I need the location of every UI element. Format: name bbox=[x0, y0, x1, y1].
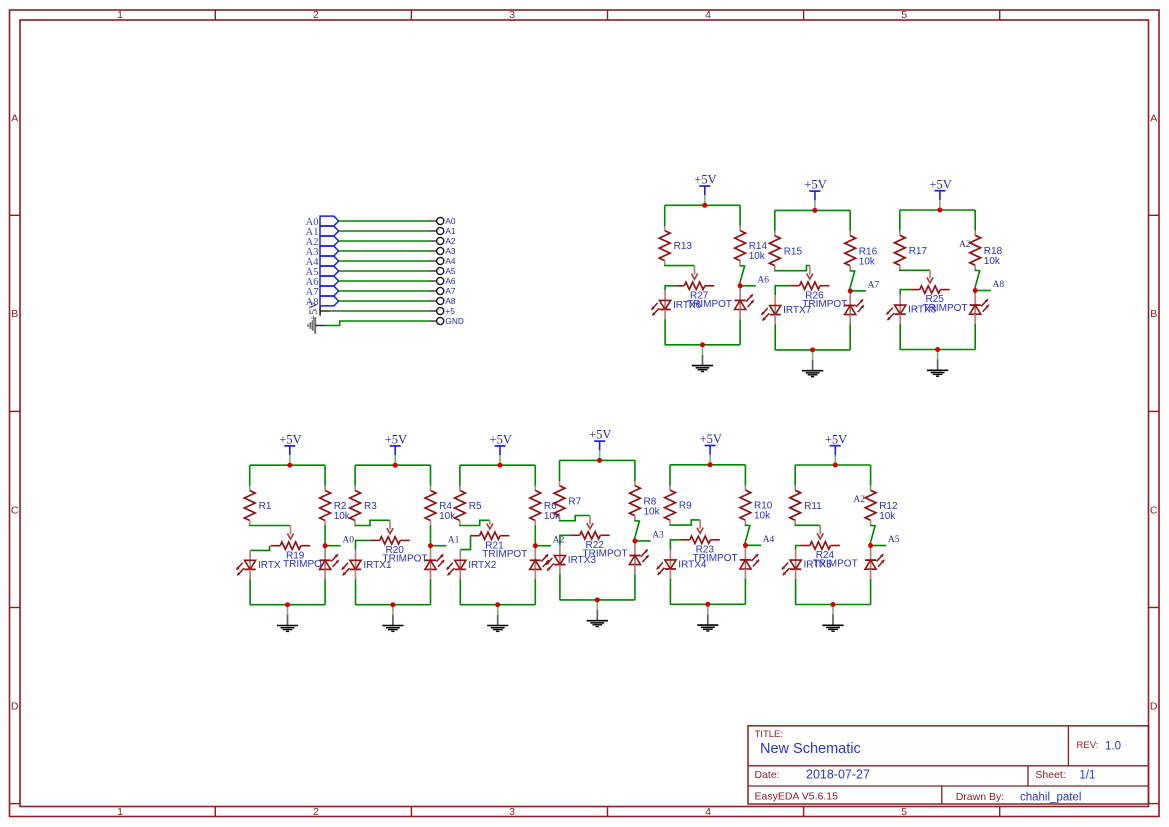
connector pin A8 bbox=[430, 296, 456, 306]
connector pin A6 bbox=[430, 276, 456, 286]
resistor R2 bbox=[320, 486, 351, 525]
wire to net flag A4 (U-B5) bbox=[745, 544, 761, 546]
junction dot bbox=[743, 543, 748, 548]
svg-text:IRTX7: IRTX7 bbox=[783, 305, 812, 316]
resistor R10 bbox=[740, 486, 773, 525]
svg-text:R17: R17 bbox=[909, 246, 928, 257]
svg-text:EasyEDA V5.6.15: EasyEDA V5.6.15 bbox=[755, 791, 839, 803]
wire IRTX4 to bottom rail (U-B5) bbox=[669, 569, 671, 579]
svg-text:A1: A1 bbox=[448, 535, 460, 545]
wire A3 bbox=[339, 250, 430, 252]
svg-text:2018-07-27: 2018-07-27 bbox=[806, 767, 870, 781]
resistor R15 bbox=[769, 231, 802, 270]
svg-text:+5V: +5V bbox=[929, 177, 951, 191]
svg-text:A: A bbox=[11, 112, 18, 124]
svg-text:4: 4 bbox=[705, 9, 711, 21]
svg-text:2: 2 bbox=[313, 806, 319, 818]
junction dot bbox=[700, 342, 705, 347]
power flag +5V (rotated, connector) bbox=[308, 300, 329, 321]
IR LED IRTX6 (cathode down) bbox=[651, 300, 701, 316]
svg-text:A5: A5 bbox=[445, 266, 456, 276]
net flag A5 bbox=[306, 266, 339, 278]
power flag +5V (U-T3) bbox=[929, 177, 951, 209]
net flag A2 bbox=[306, 236, 339, 248]
svg-text:1: 1 bbox=[117, 806, 123, 818]
IR LED (cathode up) bbox=[425, 554, 444, 570]
svg-text:A0: A0 bbox=[445, 216, 456, 226]
ground (U-T1) bbox=[692, 345, 713, 372]
svg-text:IRTX6: IRTX6 bbox=[673, 300, 702, 311]
svg-text:10k: 10k bbox=[879, 511, 896, 522]
svg-text:A1: A1 bbox=[445, 226, 456, 236]
wire A0 bbox=[339, 220, 430, 222]
svg-text:A3: A3 bbox=[445, 246, 456, 256]
svg-text:+5V: +5V bbox=[490, 433, 512, 447]
net flag A3 bbox=[306, 246, 339, 258]
wire IRTX7 to bottom rail (U-T2) bbox=[774, 315, 776, 325]
svg-text:chahil_patel: chahil_patel bbox=[1020, 792, 1081, 804]
wire to R11 bbox=[794, 465, 796, 486]
svg-text:10k: 10k bbox=[544, 511, 561, 522]
svg-text:IRTX4: IRTX4 bbox=[678, 560, 707, 571]
svg-text:Date:: Date: bbox=[755, 769, 780, 781]
wire to R10 bbox=[744, 465, 746, 486]
wire right LED to bottom rail (U-B2) bbox=[430, 569, 432, 579]
svg-text:+5V: +5V bbox=[279, 433, 301, 447]
svg-text:R15: R15 bbox=[784, 246, 803, 257]
junction dot bbox=[831, 602, 836, 607]
wire IRTX to bottom rail (U-B1) bbox=[249, 569, 251, 579]
connector pin +5 bbox=[430, 306, 455, 316]
trimpot wiper arrow bbox=[697, 520, 703, 533]
wire IRTX8 to bottom rail (U-T3) bbox=[899, 314, 901, 324]
svg-text:1.0: 1.0 bbox=[1105, 740, 1121, 752]
resistor R5 bbox=[455, 486, 483, 525]
top rail wire (U-B2) bbox=[355, 464, 430, 466]
svg-text:+5V: +5V bbox=[700, 432, 722, 446]
wire IRTX1 to bottom rail (U-B2) bbox=[355, 569, 357, 579]
junction dot bbox=[833, 463, 838, 468]
svg-text:A2: A2 bbox=[445, 236, 456, 246]
junction dot bbox=[738, 283, 743, 288]
wire right LED to bottom rail (U-B6) bbox=[870, 569, 872, 579]
resistor R13 bbox=[659, 226, 692, 265]
wire to R12 bbox=[870, 465, 872, 486]
trimpot R22 body bbox=[570, 532, 627, 560]
svg-text:3: 3 bbox=[509, 806, 515, 818]
svg-text:1: 1 bbox=[117, 9, 123, 21]
bottom rail wire (U-B1) bbox=[250, 604, 325, 606]
svg-text:10k: 10k bbox=[754, 511, 771, 522]
ground (U-B3) bbox=[487, 605, 508, 632]
wire left resistor to wiper (U-B5) bbox=[670, 520, 700, 525]
junction dot bbox=[323, 543, 328, 548]
svg-text:A2: A2 bbox=[959, 240, 971, 250]
IR LED IRTX7 (cathode down) bbox=[762, 305, 812, 321]
svg-text:+5V: +5V bbox=[385, 433, 407, 447]
svg-text:A2: A2 bbox=[853, 495, 865, 505]
power flag +5V (U-T1) bbox=[694, 173, 716, 205]
svg-text:A8: A8 bbox=[445, 296, 456, 306]
svg-text:+5: +5 bbox=[445, 306, 455, 316]
svg-text:IRTX8: IRTX8 bbox=[908, 305, 937, 316]
junction dot bbox=[848, 288, 853, 293]
top rail wire (U-B4) bbox=[560, 459, 635, 461]
wire A5 bbox=[339, 270, 430, 272]
svg-text:R3: R3 bbox=[364, 501, 377, 512]
wire to net flag A1 (U-B2) bbox=[431, 545, 447, 547]
svg-text:R7: R7 bbox=[568, 496, 581, 507]
resistor R3 bbox=[350, 486, 378, 525]
ground (U-B4) bbox=[587, 600, 608, 627]
wire to R15 bbox=[774, 210, 776, 231]
IR LED IRTX4 (cathode down) bbox=[657, 559, 707, 575]
wire right LED to bottom rail (U-B5) bbox=[744, 569, 746, 579]
resistor R7 bbox=[554, 481, 582, 520]
svg-text:R5: R5 bbox=[469, 501, 482, 512]
IR LED (cathode up) bbox=[530, 554, 549, 570]
wire left resistor to wiper (U-B4) bbox=[560, 516, 591, 521]
top rail wire (U-B1) bbox=[250, 464, 325, 466]
wire trimpot to IRTX (U-B1) bbox=[250, 546, 270, 551]
svg-text:2: 2 bbox=[313, 9, 319, 21]
trimpot R25 body bbox=[910, 286, 967, 314]
ground (U-B2) bbox=[382, 605, 403, 632]
svg-text:A8: A8 bbox=[993, 280, 1005, 290]
wire left resistor to wiper (U-T3) bbox=[900, 269, 930, 271]
junction dot bbox=[708, 462, 713, 467]
trimpot R24 body bbox=[801, 542, 858, 570]
wire left resistor to wiper (U-B2) bbox=[355, 520, 390, 525]
svg-text:New Schematic: New Schematic bbox=[760, 741, 861, 757]
wire node to right LED (U-T1) bbox=[739, 286, 741, 289]
svg-text:A: A bbox=[1150, 112, 1157, 124]
wire right LED to bottom rail (U-B3) bbox=[534, 569, 536, 579]
junction dot bbox=[935, 347, 940, 352]
resistor R8 bbox=[630, 481, 661, 520]
wire IRTX6 to bottom rail (U-T1) bbox=[664, 310, 666, 320]
wire node to right LED (U-B6) bbox=[870, 546, 872, 549]
resistor R16 bbox=[845, 231, 878, 270]
junction dot bbox=[390, 602, 395, 607]
wire to net flag A6 (U-T1) bbox=[740, 285, 756, 287]
trimpot R23 body bbox=[680, 536, 737, 564]
bottom rail wire (U-T1) bbox=[665, 344, 740, 346]
bottom rail wire (U-B4) bbox=[560, 599, 635, 601]
wire IRTX3 to bottom rail (U-B4) bbox=[559, 565, 561, 575]
svg-text:B: B bbox=[1150, 308, 1157, 320]
wire to R5 bbox=[459, 465, 461, 486]
svg-text:C: C bbox=[11, 504, 19, 516]
net flag A8 bbox=[306, 296, 339, 308]
wire trimpot to IRTX5 (U-B6) bbox=[796, 546, 801, 550]
trimpot wiper arrow bbox=[691, 266, 697, 280]
svg-text:D: D bbox=[11, 700, 19, 712]
IR LED IRTX5 (cathode down) bbox=[782, 560, 832, 576]
wire to R6 bbox=[534, 465, 536, 486]
net flag A0 bbox=[306, 216, 339, 228]
wire R16 to node A7 (U-T2) bbox=[850, 270, 855, 291]
svg-text:Sheet:: Sheet: bbox=[1035, 769, 1065, 781]
svg-text:+5V: +5V bbox=[589, 428, 611, 442]
wire trimpot to IRTX3 (U-B4) bbox=[560, 535, 570, 545]
power flag +5V (U-T2) bbox=[804, 178, 826, 210]
wire A8 bbox=[339, 300, 430, 302]
connector pin A4 bbox=[430, 256, 456, 266]
IR LED (cathode up) bbox=[845, 300, 864, 316]
svg-text:A4: A4 bbox=[763, 535, 775, 545]
power flag +5V (U-B5) bbox=[700, 432, 722, 464]
wire R18 to node A8 (U-T3) bbox=[975, 270, 980, 291]
wire trimpot to IRTX2 (U-B3) bbox=[460, 536, 470, 550]
resistor R9 bbox=[665, 486, 693, 525]
resistor R17 bbox=[894, 231, 927, 270]
svg-text:IRTX1: IRTX1 bbox=[363, 560, 392, 571]
svg-text:A6: A6 bbox=[445, 276, 456, 286]
top rail wire (U-B5) bbox=[670, 464, 745, 466]
junction dot bbox=[812, 208, 817, 213]
wire IRTX5 to bottom rail (U-B6) bbox=[795, 569, 797, 579]
wire to R14 bbox=[739, 205, 741, 226]
wire node to right LED (U-B5) bbox=[744, 545, 746, 548]
wire node to right LED (U-B4) bbox=[634, 541, 636, 544]
connector pin A0 bbox=[430, 216, 456, 226]
wire trimpot to IRTX4 (U-B5) bbox=[670, 540, 680, 550]
trimpot R20 body bbox=[370, 537, 427, 565]
wire to R4 bbox=[430, 465, 432, 486]
svg-text:REV:: REV: bbox=[1077, 740, 1099, 751]
wire to net flag A8 (U-T3) bbox=[975, 290, 991, 292]
wire left resistor to wiper (U-B1) bbox=[250, 524, 291, 526]
connector pin A7 bbox=[430, 286, 456, 296]
wire +5 bbox=[330, 310, 431, 312]
junction dot bbox=[973, 288, 978, 293]
trimpot wiper arrow bbox=[287, 526, 293, 540]
svg-text:Drawn By:: Drawn By: bbox=[956, 791, 1004, 803]
svg-text:A6: A6 bbox=[757, 275, 769, 285]
trimpot R19 body bbox=[271, 542, 328, 570]
wire R12 to node A5 (U-B6) bbox=[870, 525, 875, 546]
wire right LED to bottom rail (U-B1) bbox=[324, 569, 326, 579]
svg-text:A4: A4 bbox=[445, 256, 456, 266]
wire to R13 bbox=[664, 205, 666, 226]
svg-text:5: 5 bbox=[901, 9, 907, 21]
power flag +5V (U-B1) bbox=[279, 433, 301, 465]
svg-text:A7: A7 bbox=[445, 286, 456, 296]
svg-text:A5: A5 bbox=[888, 535, 900, 545]
svg-text:TRIMPOT: TRIMPOT bbox=[482, 549, 527, 560]
top rail wire (U-B3) bbox=[460, 464, 535, 466]
wire to R1 bbox=[249, 465, 251, 486]
bottom rail wire (U-B2) bbox=[355, 604, 430, 606]
wire A2 bbox=[339, 240, 430, 242]
svg-text:D: D bbox=[1150, 700, 1158, 712]
resistor R4 bbox=[425, 486, 456, 525]
trimpot wiper arrow bbox=[487, 520, 493, 529]
IR LED IRTX (cathode down) bbox=[236, 560, 281, 576]
wire to R8 bbox=[634, 460, 636, 481]
resistor R18 bbox=[970, 231, 1003, 270]
wire to net flag A5 (U-B6) bbox=[871, 545, 887, 547]
wire to R16 bbox=[849, 210, 851, 231]
svg-text:A3: A3 bbox=[652, 531, 664, 541]
junction dot bbox=[937, 208, 942, 213]
resistor R12 bbox=[865, 486, 898, 525]
wire node to right LED (U-B2) bbox=[430, 546, 432, 549]
wire right LED to bottom rail (U-T1) bbox=[739, 310, 741, 320]
wire left resistor to wiper (U-T2) bbox=[775, 266, 810, 271]
ground (U-T2) bbox=[802, 350, 823, 377]
IR LED IRTX2 (cathode down) bbox=[447, 560, 497, 576]
trimpot R21 body bbox=[470, 532, 527, 560]
power flag +5V (U-B6) bbox=[825, 432, 847, 464]
svg-text:+5V: +5V bbox=[825, 432, 847, 446]
wire R8 to node A3 (U-B4) bbox=[635, 520, 640, 541]
junction dot bbox=[597, 458, 602, 463]
wire to net flag A3 (U-B4) bbox=[635, 540, 651, 542]
ground (U-B1) bbox=[277, 605, 298, 632]
resistor R11 bbox=[790, 486, 822, 525]
trimpot wiper arrow bbox=[927, 270, 933, 283]
svg-text:+5V: +5V bbox=[694, 173, 716, 187]
junction dot bbox=[393, 463, 398, 468]
resistor R14 bbox=[735, 226, 768, 265]
wire to net flag A0 (U-B1) bbox=[325, 545, 341, 547]
svg-text:IRTX3: IRTX3 bbox=[568, 555, 597, 566]
svg-text:3: 3 bbox=[509, 9, 515, 21]
svg-text:10k: 10k bbox=[439, 511, 456, 522]
svg-text:A2: A2 bbox=[553, 535, 565, 545]
svg-text:10k: 10k bbox=[644, 506, 661, 517]
top rail wire (U-T3) bbox=[900, 209, 975, 211]
trimpot wiper arrow bbox=[807, 266, 813, 280]
connector pin A5 bbox=[430, 266, 456, 276]
junction dot bbox=[533, 543, 538, 548]
svg-text:1/1: 1/1 bbox=[1079, 769, 1095, 781]
junction dot bbox=[498, 463, 503, 468]
wire to net flag A7 (U-T2) bbox=[850, 290, 866, 292]
title block bbox=[748, 726, 1149, 804]
junction dot bbox=[495, 602, 500, 607]
wire to R18 bbox=[974, 210, 976, 231]
wire right LED to bottom rail (U-B4) bbox=[634, 565, 636, 575]
junction dot bbox=[702, 203, 707, 208]
IR LED (cathode up) bbox=[740, 554, 759, 570]
junction dot bbox=[632, 538, 637, 543]
wire trimpot to IRTX1 (U-B2) bbox=[356, 540, 371, 550]
connector pin GND bbox=[430, 316, 464, 326]
svg-text:A0: A0 bbox=[342, 535, 354, 545]
connector pin A1 bbox=[430, 226, 456, 236]
bottom rail wire (U-B3) bbox=[460, 604, 535, 606]
wire A7 bbox=[339, 290, 430, 292]
resistor R1 bbox=[244, 486, 272, 525]
svg-text:TITLE:: TITLE: bbox=[755, 729, 784, 740]
IR LED IRTX1 (cathode down) bbox=[342, 560, 392, 576]
wire left resistor to wiper (U-B6) bbox=[795, 524, 820, 526]
ground (U-B6) bbox=[822, 605, 843, 632]
wire A6 bbox=[339, 280, 430, 282]
IR LED (cathode up) bbox=[320, 554, 339, 570]
svg-text:R13: R13 bbox=[674, 241, 693, 252]
svg-text:R1: R1 bbox=[259, 501, 272, 512]
IR LED (cathode up) bbox=[970, 299, 989, 315]
svg-text:A7: A7 bbox=[868, 281, 880, 291]
wire left resistor to wiper (U-T1) bbox=[665, 264, 695, 266]
wire trimpot to IRTX7 (U-T2) bbox=[775, 286, 790, 295]
wire to R3 bbox=[354, 465, 356, 486]
power flag +5V (U-B4) bbox=[589, 428, 611, 460]
net flag A7 bbox=[306, 286, 339, 298]
wire right LED to bottom rail (U-T3) bbox=[974, 314, 976, 324]
IR LED IRTX3 (cathode down) bbox=[546, 555, 596, 571]
svg-text:4: 4 bbox=[705, 806, 711, 818]
power flag +5V (U-B3) bbox=[490, 433, 512, 465]
wire GND bbox=[325, 321, 430, 326]
trimpot wiper arrow bbox=[817, 525, 823, 539]
ground (rotated, connector) bbox=[308, 317, 324, 333]
net flag A1 bbox=[306, 226, 339, 238]
wire R4 to node A1 (U-B2) bbox=[430, 525, 432, 546]
bottom rail wire (U-T3) bbox=[900, 349, 975, 351]
wire R6 to node A2 (U-B3) bbox=[534, 525, 536, 546]
trimpot wiper arrow bbox=[387, 520, 393, 534]
svg-text:10k: 10k bbox=[749, 251, 766, 262]
svg-text:10k: 10k bbox=[984, 256, 1001, 267]
trimpot wiper arrow bbox=[587, 516, 593, 529]
IR LED IRTX8 (cathode down) bbox=[887, 305, 937, 321]
junction dot bbox=[868, 543, 873, 548]
wire R14 to node A6 (U-T1) bbox=[740, 265, 745, 286]
IR LED (cathode up) bbox=[865, 554, 884, 570]
svg-text:10k: 10k bbox=[334, 511, 351, 522]
top rail wire (U-T1) bbox=[665, 204, 740, 206]
top rail wire (U-B6) bbox=[795, 464, 870, 466]
trimpot R27 body bbox=[675, 282, 732, 310]
wire to R9 bbox=[669, 465, 671, 486]
wire node to right LED (U-B1) bbox=[324, 546, 326, 549]
junction dot bbox=[705, 602, 710, 607]
top rail wire (U-T2) bbox=[775, 209, 850, 211]
svg-text:B: B bbox=[11, 308, 18, 320]
svg-text:5: 5 bbox=[901, 806, 907, 818]
connector pin A3 bbox=[430, 246, 456, 256]
resistor R6 bbox=[530, 486, 561, 525]
junction dot bbox=[287, 463, 292, 468]
wire IRTX2 to bottom rail (U-B3) bbox=[459, 569, 461, 579]
bottom rail wire (U-T2) bbox=[775, 349, 850, 351]
svg-text:IRTX2: IRTX2 bbox=[468, 560, 497, 571]
wire node to right LED (U-T2) bbox=[849, 291, 851, 294]
ground (U-T3) bbox=[927, 350, 948, 377]
wire to net flag A2 (U-B3) bbox=[535, 545, 551, 547]
junction dot bbox=[285, 602, 290, 607]
IR LED (cathode up) bbox=[629, 550, 648, 566]
junction dot bbox=[810, 347, 815, 352]
svg-text:GND: GND bbox=[445, 316, 463, 326]
svg-text:R9: R9 bbox=[679, 501, 692, 512]
net flag A4 bbox=[306, 256, 339, 268]
wire node to right LED (U-T3) bbox=[974, 291, 976, 294]
IR LED (cathode up) bbox=[735, 294, 754, 310]
wire right LED to bottom rail (U-T2) bbox=[849, 315, 851, 325]
svg-text:+5V: +5V bbox=[804, 178, 826, 192]
junction dot bbox=[595, 597, 600, 602]
wire left resistor to wiper (U-B3) bbox=[460, 520, 490, 525]
power flag +5V (U-B2) bbox=[385, 433, 407, 465]
svg-text:IRTX: IRTX bbox=[258, 560, 281, 571]
connector pin A2 bbox=[430, 236, 456, 246]
